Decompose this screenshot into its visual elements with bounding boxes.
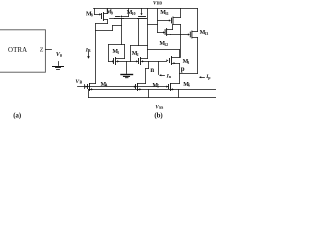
arrow In [159,74,165,76]
svg-text:12: 12 [164,42,168,47]
svg-text:Z: Z [40,48,44,54]
wire bus to rail corner [88,90,90,98]
gate bus VB [78,86,169,88]
wire M12 to M13 gate [171,34,188,36]
VDD rail [94,8,198,10]
svg-text:2: 2 [137,52,139,57]
svg-text:3: 3 [187,60,189,65]
svg-text:13: 13 [204,31,208,36]
VSS rail [89,97,217,99]
wire In branch [158,62,160,75]
svg-text:8: 8 [91,12,93,17]
wire p node horizontal [180,73,198,75]
wire IB branch [96,24,122,84]
VB terminal tick [84,85,86,89]
wire M13 drain down to p [197,38,199,74]
wire M9 to M10 [124,18,138,20]
svg-text:11: 11 [165,11,169,16]
svg-text:n: n [150,67,154,74]
svg-text:5: 5 [157,84,159,89]
wire n node [146,62,149,84]
svg-text:4: 4 [105,83,107,88]
svg-text:SS: SS [159,106,163,110]
OTRA box (figure a) [0,30,45,72]
transistor M5 [134,84,149,98]
svg-text:9: 9 [111,10,113,15]
svg-text:OTRA: OTRA [8,47,27,54]
svg-text:10: 10 [132,11,136,16]
source bus bottom [89,89,217,91]
wire M3 drain/source vertical [179,50,181,58]
transistor M8 [95,9,108,24]
wire M11 gate to M12 gate [157,9,159,33]
ground (figure a) [53,62,64,70]
svg-text:n: n [169,74,172,79]
ground (figure b) [121,62,133,78]
arrow Ip [199,76,205,78]
diode box M2 [131,46,148,62]
wire M11 drain down [180,25,182,58]
svg-text:6: 6 [188,83,190,88]
transistor M4 [86,84,96,91]
wire drain bus to M3 [148,49,180,51]
svg-text:1: 1 [117,50,119,55]
transistor M13 [188,9,198,39]
svg-text:p: p [181,66,185,73]
svg-text:p: p [208,75,211,80]
transistor M9 (rotated) [110,9,138,45]
diode box M1 [109,45,125,62]
transistor M11 [158,9,181,25]
svg-text:DD: DD [157,2,163,6]
svg-text:0: 0 [60,53,62,58]
transistor M1 [109,58,138,65]
transistor M6 [166,84,179,98]
transistor M12 [158,25,173,36]
transistor M10 (rotated) [138,9,158,59]
svg-text:B: B [80,79,83,84]
transistor M2 [136,58,166,65]
wire from Z output [45,49,51,51]
svg-text:(b): (b) [154,113,162,120]
transistor M3 [166,57,179,65]
svg-text:(a): (a) [13,112,21,119]
